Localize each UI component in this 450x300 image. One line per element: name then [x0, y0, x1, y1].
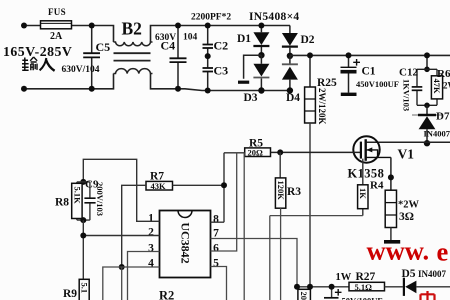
diode D2: [282, 26, 315, 60]
svg-text:D2: D2: [301, 34, 315, 46]
wire pin1 compensation: [83, 159, 159, 221]
svg-text:*2W: *2W: [398, 200, 420, 211]
svg-text:V1: V1: [398, 147, 415, 162]
choke B2: [114, 19, 153, 74]
capacitor C2: [203, 23, 229, 57]
svg-text:C4: C4: [161, 39, 176, 53]
node input bottom terminal: [21, 86, 27, 92]
svg-text:R2: R2: [159, 289, 174, 300]
svg-text:FUS: FUS: [48, 7, 66, 17]
svg-text:165V-285V: 165V-285V: [3, 44, 72, 59]
wire drain rail: [366, 141, 450, 143]
svg-text:2: 2: [148, 227, 154, 239]
svg-text:5.1Ω: 5.1Ω: [355, 282, 373, 292]
wire R4 bottom to left: [270, 216, 363, 300]
wire pin4: [103, 267, 160, 300]
svg-text:50V/100UF: 50V/100UF: [342, 296, 383, 300]
wire pin6: [211, 153, 237, 251]
svg-text:R6: R6: [437, 68, 450, 80]
svg-text:IN4007: IN4007: [418, 269, 447, 279]
svg-text:2W: 2W: [443, 81, 450, 91]
svg-text:20Ω: 20Ω: [248, 147, 264, 157]
wire R7 right / pin8: [173, 153, 245, 222]
svg-text:D4: D4: [286, 92, 300, 104]
resistor 3ohm source sense: [385, 190, 419, 227]
svg-text:630V/104: 630V/104: [62, 65, 100, 75]
node source: [388, 174, 394, 180]
svg-text:D5: D5: [402, 268, 416, 280]
resistor R5: [245, 138, 281, 158]
svg-text:B2: B2: [122, 19, 142, 39]
wire pin5: [211, 267, 227, 300]
resistor R8: [55, 182, 90, 220]
node drain: [424, 140, 430, 146]
capacitor C1: [341, 52, 399, 96]
terminal bar left: [238, 81, 249, 84]
svg-text:5.1K: 5.1K: [72, 187, 82, 205]
svg-text:D3: D3: [244, 92, 258, 104]
svg-text:C12: C12: [399, 67, 418, 79]
node VCC corner: [294, 284, 300, 290]
wire bottom rail right of B2: [151, 74, 291, 91]
svg-text:2200PF*2: 2200PF*2: [191, 13, 231, 23]
svg-text:4: 4: [148, 258, 154, 270]
node R8C9 bottom: [80, 217, 86, 223]
svg-text:1K: 1K: [358, 188, 368, 199]
svg-text:D7: D7: [436, 111, 450, 123]
label 输入 (hand drawn): [22, 57, 55, 71]
svg-text:3Ω: 3Ω: [399, 211, 414, 223]
wire D1/D3 midpoint to bar: [244, 55, 262, 79]
wire DC+ rail: [290, 54, 450, 56]
wire bottom AC rail: [24, 74, 114, 89]
ground bar below 3ohm: [390, 228, 392, 241]
svg-text:UC3842: UC3842: [179, 222, 193, 263]
wire R25 down to VCC net: [309, 123, 311, 287]
diode D7: [412, 105, 450, 143]
svg-text:R9: R9: [63, 288, 77, 300]
svg-text:C2: C2: [214, 39, 229, 53]
svg-text:R8: R8: [55, 197, 69, 209]
wire pin3: [128, 252, 160, 300]
capacitor C5: [62, 23, 111, 92]
svg-text:K1358: K1358: [348, 167, 385, 181]
svg-text:5.1: 5.1: [80, 283, 90, 294]
node input top terminal: [21, 23, 27, 29]
resistor R6: [431, 68, 450, 99]
IC UC3842: [148, 211, 219, 278]
svg-text:120K: 120K: [276, 181, 286, 201]
resistor R9: [63, 279, 90, 300]
wire source: [390, 157, 392, 190]
svg-text:IN5408×4: IN5408×4: [249, 11, 299, 23]
node gate junction: [277, 149, 283, 155]
diode D1: [237, 23, 269, 59]
svg-text:C1: C1: [362, 66, 376, 78]
svg-text:1: 1: [148, 213, 154, 225]
svg-text:6: 6: [213, 242, 219, 254]
node R8C9 top: [80, 179, 86, 185]
wire R7 left to pin4: [122, 185, 146, 267]
svg-text:1W: 1W: [336, 272, 352, 283]
wire R5 left drop: [243, 153, 245, 300]
wire top rail right of B2: [151, 26, 291, 43]
capacitor C3: [203, 53, 229, 93]
svg-text:104: 104: [183, 33, 198, 43]
wire VCC bottom net: [297, 286, 349, 288]
svg-text:e: e: [437, 237, 449, 267]
node R25 bottom: [307, 284, 313, 290]
node pin2 junction: [80, 233, 86, 239]
svg-text:R3: R3: [287, 186, 301, 198]
diode D3: [244, 55, 270, 104]
svg-text:C3: C3: [214, 64, 229, 78]
watermark red char 电: [421, 291, 435, 300]
diode D5: [402, 268, 450, 296]
svg-text:200: 200: [299, 292, 309, 300]
resistor R25: [305, 52, 337, 124]
fuse FUS: [41, 7, 72, 42]
wire pin7 VCC: [211, 239, 298, 287]
svg-text:8: 8: [213, 213, 219, 225]
svg-text:www.: www.: [367, 236, 430, 266]
svg-text:2A: 2A: [50, 31, 63, 42]
svg-text:IN4007: IN4007: [424, 129, 450, 139]
svg-text:R4: R4: [370, 180, 384, 192]
svg-text:450V100UF: 450V100UF: [356, 79, 399, 89]
resistor R4: [358, 159, 384, 216]
capacitor 50V/100UF: [324, 284, 383, 300]
capacitor C9: [77, 179, 105, 221]
svg-text:3: 3: [148, 242, 154, 254]
resistor R7: [146, 171, 173, 191]
svg-text:47K: 47K: [432, 79, 442, 95]
snubber C12 R6 network: [399, 52, 437, 111]
capacitor C4: [155, 23, 198, 92]
wire top AC rail: [24, 26, 114, 43]
wire pin2: [83, 220, 160, 279]
svg-text:200V/103: 200V/103: [95, 182, 105, 216]
svg-text:D1: D1: [237, 33, 251, 45]
svg-text:43K: 43K: [151, 181, 167, 191]
resistor 20x bottom: [298, 289, 311, 300]
diode D4: [282, 56, 300, 104]
svg-text:1KV/103: 1KV/103: [402, 79, 412, 111]
node R7 right: [221, 182, 227, 188]
mosfet V1: [280, 136, 414, 180]
resistor R3: [275, 152, 301, 300]
resistor R27: [336, 271, 403, 292]
svg-text:2W/120K: 2W/120K: [317, 88, 327, 125]
node pin4 junction: [119, 264, 125, 270]
svg-text:5: 5: [213, 258, 219, 270]
svg-text:C5: C5: [96, 40, 111, 54]
